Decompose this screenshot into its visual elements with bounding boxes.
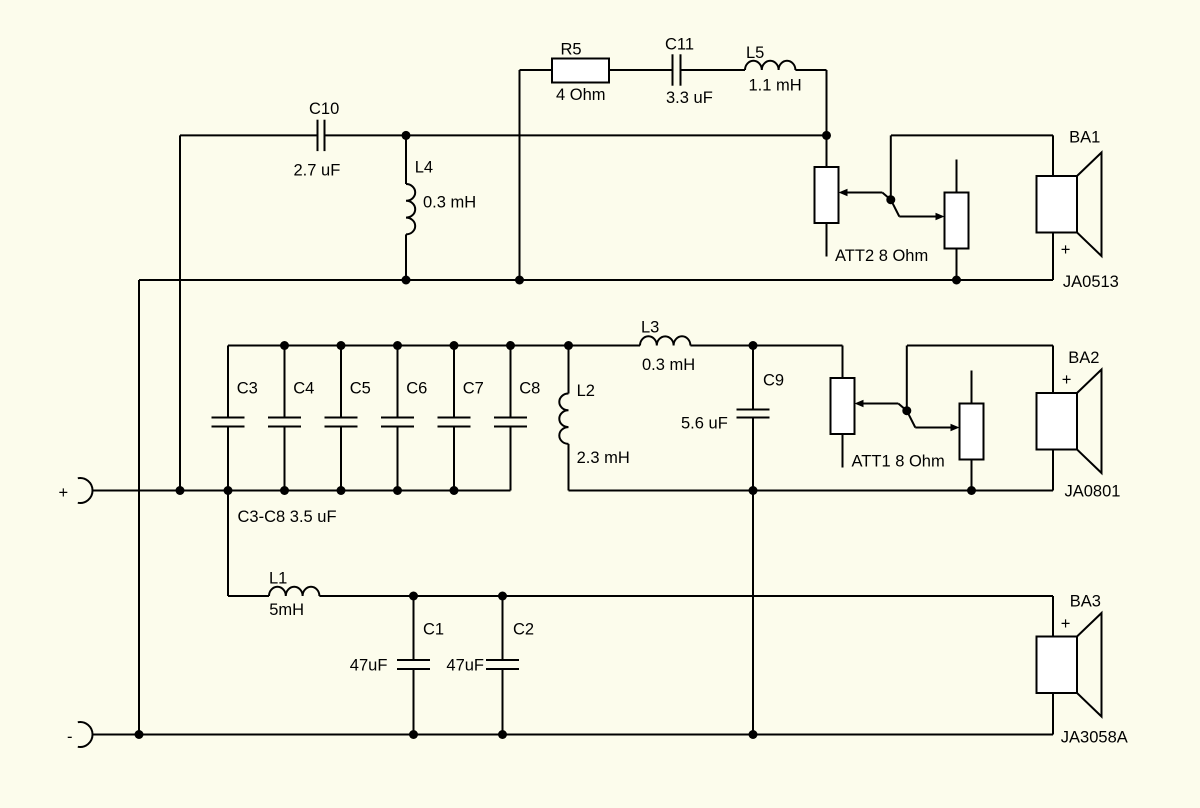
svg-text:0.3 mH: 0.3 mH — [423, 194, 476, 212]
svg-text:+: + — [59, 484, 69, 502]
svg-text:2.7 uF: 2.7 uF — [294, 162, 341, 180]
svg-text:5mH: 5mH — [269, 601, 304, 619]
svg-text:C3-C8 3.5 uF: C3-C8 3.5 uF — [238, 508, 337, 526]
svg-text:+: + — [1061, 615, 1071, 633]
svg-text:L2: L2 — [577, 382, 595, 400]
svg-text:1.1 mH: 1.1 mH — [749, 77, 802, 95]
svg-text:ATT2 8 Ohm: ATT2 8 Ohm — [835, 247, 928, 265]
svg-text:L3: L3 — [641, 319, 659, 337]
svg-text:C1: C1 — [423, 621, 444, 639]
svg-text:L5: L5 — [746, 44, 764, 62]
svg-text:C3: C3 — [237, 379, 258, 397]
svg-text:4 Ohm: 4 Ohm — [556, 86, 606, 104]
svg-text:R5: R5 — [561, 40, 582, 58]
svg-text:C8: C8 — [519, 379, 540, 397]
svg-text:C2: C2 — [513, 621, 534, 639]
svg-text:C6: C6 — [406, 379, 427, 397]
svg-text:C5: C5 — [350, 379, 371, 397]
svg-text:47uF: 47uF — [446, 656, 484, 674]
svg-text:+: + — [1062, 371, 1072, 389]
svg-text:C11: C11 — [665, 36, 694, 54]
svg-text:JA0513: JA0513 — [1063, 273, 1119, 291]
svg-text:BA2: BA2 — [1068, 349, 1099, 367]
svg-text:BA3: BA3 — [1070, 593, 1101, 611]
svg-text:47uF: 47uF — [350, 656, 388, 674]
svg-text:JA3058A: JA3058A — [1061, 729, 1128, 747]
svg-text:JA0801: JA0801 — [1065, 482, 1121, 500]
svg-text:3.3 uF: 3.3 uF — [666, 89, 713, 107]
svg-text:+: + — [1061, 241, 1071, 259]
svg-text:0.3 mH: 0.3 mH — [642, 356, 695, 374]
svg-text:5.6 uF: 5.6 uF — [681, 414, 728, 432]
svg-text:L1: L1 — [269, 570, 287, 588]
svg-text:C7: C7 — [463, 379, 484, 397]
svg-text:C4: C4 — [293, 379, 314, 397]
svg-text:-: - — [67, 728, 73, 746]
svg-text:2.3 mH: 2.3 mH — [577, 449, 630, 467]
svg-text:ATT1 8 Ohm: ATT1 8 Ohm — [852, 452, 945, 470]
svg-text:C10: C10 — [309, 100, 339, 118]
svg-text:C9: C9 — [763, 371, 784, 389]
svg-text:L4: L4 — [415, 158, 433, 176]
svg-text:BA1: BA1 — [1069, 129, 1100, 147]
